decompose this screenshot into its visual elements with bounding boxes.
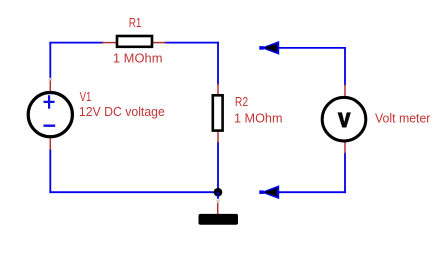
value 1 MOhm (R1) — [113, 50, 163, 65]
wire top probe arrow to right corner — [278, 47, 346, 49]
label V1 — [80, 89, 92, 104]
junction node — [214, 188, 223, 197]
svg-text:V1: V1 — [80, 89, 92, 104]
wire V1 bottom to bottom-left corner — [49, 149, 51, 193]
wire V1 top to top-left corner — [49, 43, 51, 79]
ground — [199, 192, 239, 225]
voltage source V1 — [28, 78, 72, 151]
label R1 — [129, 15, 142, 30]
label R2 — [235, 94, 248, 109]
svg-text:12V DC voltage: 12V DC voltage — [79, 104, 165, 119]
value 12V DC voltage — [79, 104, 165, 119]
resistor R1 — [102, 36, 166, 47]
probe arrow top — [259, 41, 279, 55]
label Volt meter — [375, 111, 431, 126]
wire middle vertical to R2 top — [217, 42, 219, 85]
resistor R2 — [213, 84, 223, 144]
voltmeter U1 — [322, 85, 366, 154]
wire R2 bottom to junction — [217, 142, 219, 193]
wire voltmeter bottom to bottom-right corner — [344, 153, 346, 194]
svg-text:Volt meter: Volt meter — [375, 111, 431, 126]
probe arrow bottom — [259, 185, 279, 199]
pin end marker ground top — [216, 200, 219, 202]
wire bottom rail to junction — [49, 191, 218, 193]
svg-text:1 MOhm: 1 MOhm — [113, 50, 163, 65]
value 1 MOhm (R2) — [234, 111, 283, 126]
svg-text:R1: R1 — [129, 15, 142, 30]
svg-text:1 MOhm: 1 MOhm — [234, 111, 283, 126]
wire top-left corner to R1 left — [49, 42, 104, 44]
wire R1 right to middle corner — [164, 42, 219, 44]
svg-text:R2: R2 — [235, 94, 248, 109]
wire right vertical to voltmeter top — [344, 47, 346, 86]
pin end marker V1 top — [49, 78, 52, 81]
wire bottom probe arrow to right corner — [278, 191, 346, 193]
